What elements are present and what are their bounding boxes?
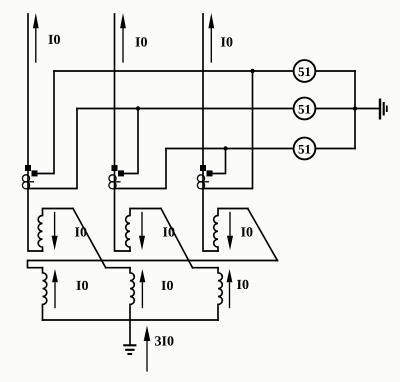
winding W2 upper (delta-side phase B coil) bbox=[126, 209, 161, 252]
wire neutral to ground bbox=[129, 320, 131, 344]
current arrow I0 phase A bbox=[33, 13, 39, 62]
svg-text:3I0: 3I0 bbox=[155, 335, 174, 350]
svg-text:51: 51 bbox=[298, 64, 311, 79]
svg-text:I0: I0 bbox=[161, 279, 173, 294]
current arrow I0 in W1 lower bbox=[52, 269, 58, 308]
winding W3 lower (star-side phase C coil) bbox=[218, 268, 222, 320]
wire CT A secondary bottom to bus 2 bbox=[28, 109, 77, 189]
ground (neutral) bbox=[123, 345, 136, 354]
relay 51 phase 1 bbox=[294, 60, 316, 82]
wire diagonal W3 upper to bus of W1 lower bbox=[248, 209, 278, 261]
CT TA-B secondary polarity mark bbox=[118, 170, 124, 176]
wire bus 2 to relay 2 bbox=[77, 108, 294, 110]
wire W3 lower top lead bbox=[193, 267, 219, 269]
svg-text:I0: I0 bbox=[241, 226, 253, 241]
wire to right ground bbox=[355, 108, 379, 110]
ground (right, relay common) bbox=[380, 99, 387, 120]
node junction bus2/CT B drop bbox=[136, 106, 140, 110]
CT TA-C polarity mark on line bbox=[200, 165, 206, 171]
winding W2 lower (star-side phase B coil) bbox=[130, 268, 134, 320]
wire common return vertical bbox=[354, 71, 356, 149]
svg-text:I0: I0 bbox=[76, 279, 88, 294]
svg-text:51: 51 bbox=[298, 142, 311, 157]
wire bus 3 to relay 3 bbox=[166, 148, 294, 150]
current arrow I0 in W2 lower bbox=[140, 269, 146, 308]
svg-text:I0: I0 bbox=[237, 278, 249, 293]
winding W1 lower (star-side phase A coil) bbox=[43, 268, 47, 320]
svg-text:51: 51 bbox=[298, 102, 311, 117]
svg-text:I0: I0 bbox=[221, 36, 233, 51]
node junction common/ground bbox=[353, 106, 357, 110]
wire bus 1 drop to CT A secondary bbox=[37, 71, 54, 174]
current arrow I0 in W3 lower bbox=[227, 269, 233, 308]
CT TA-A secondary polarity mark bbox=[32, 170, 38, 176]
wire phase A conductor bbox=[28, 14, 43, 251]
CT TA-A polarity mark on line bbox=[25, 165, 31, 171]
wire CT C secondary bottom riser to bus 1 bbox=[203, 71, 253, 189]
svg-text:I0: I0 bbox=[48, 33, 60, 48]
CT TA-C secondary winding turns bbox=[197, 175, 208, 189]
relay 51 phase 3 bbox=[294, 138, 316, 160]
winding W3 upper (delta-side phase C coil) bbox=[214, 209, 248, 252]
node junction bus3/CT C drop bbox=[223, 146, 227, 150]
wire bus 3 drop to CT C secondary bbox=[210, 149, 226, 174]
wire diagonal W1 upper to W2 lower bbox=[73, 209, 106, 268]
current arrow I0 in W1 upper bbox=[52, 213, 58, 251]
wire lower-row top bus (from W3 diagonal to W1 lower) bbox=[28, 261, 278, 268]
wire relay 3 to common bbox=[315, 148, 355, 150]
CT TA-C secondary polarity mark bbox=[207, 170, 213, 176]
CT TA-A secondary winding turns bbox=[22, 175, 33, 189]
svg-text:I0: I0 bbox=[163, 226, 175, 241]
CT TA-B polarity mark on line bbox=[112, 165, 118, 171]
svg-text:I0: I0 bbox=[75, 226, 87, 241]
wire W2 lower top lead bbox=[106, 267, 130, 269]
svg-text:I0: I0 bbox=[135, 35, 147, 50]
wire relay 2 to common bbox=[315, 108, 355, 110]
wire phase B conductor bbox=[115, 14, 131, 251]
wire CT B secondary bottom to bus 3 bbox=[115, 149, 167, 189]
current arrow I0 phase B bbox=[120, 13, 126, 62]
current arrow I0 in W2 upper bbox=[139, 213, 145, 251]
current arrow 3I0 in neutral bbox=[144, 326, 151, 372]
wire neutral bottom bus bbox=[43, 319, 219, 321]
current arrow I0 phase C bbox=[208, 13, 214, 62]
wire phase C conductor bbox=[203, 14, 218, 251]
wire bus 1 to relay 1 bbox=[54, 70, 294, 72]
wire diagonal W2 upper to W3 lower bbox=[161, 209, 193, 268]
current arrow I0 in W3 upper bbox=[227, 213, 233, 251]
CT TA-B secondary winding turns bbox=[109, 175, 120, 189]
node junction bus1/CT C riser bbox=[250, 69, 254, 73]
relay 51 phase 2 bbox=[294, 98, 316, 120]
wire bus 2 drop to CT B secondary bbox=[121, 109, 138, 174]
wire relay 1 to common bbox=[315, 70, 355, 72]
winding W1 upper (delta-side phase A coil) bbox=[38, 209, 73, 252]
